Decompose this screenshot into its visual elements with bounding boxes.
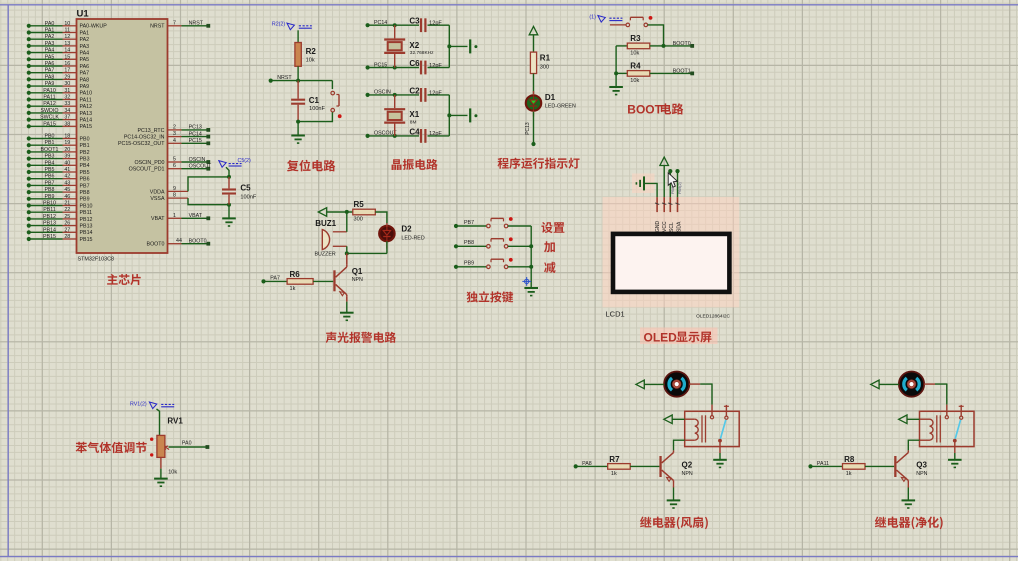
svg-text:PB2: PB2 — [80, 150, 90, 156]
svg-text:PA2: PA2 — [80, 37, 90, 43]
svg-text:21: 21 — [64, 201, 70, 207]
svg-text:PB9: PB9 — [44, 194, 54, 200]
svg-text:5: 5 — [173, 157, 176, 163]
svg-text:44: 44 — [176, 238, 182, 244]
svg-text:3: 3 — [173, 131, 176, 137]
svg-text:OSCIN_PD0: OSCIN_PD0 — [134, 160, 164, 166]
svg-text:PC15-OSC32_OUT: PC15-OSC32_OUT — [118, 141, 165, 147]
svg-text:26: 26 — [64, 221, 70, 227]
svg-text:PC15: PC15 — [189, 138, 202, 144]
svg-text:PA1: PA1 — [45, 28, 55, 34]
svg-text:X2: X2 — [409, 41, 419, 50]
svg-text:BOOT0: BOOT0 — [189, 239, 207, 245]
svg-text:PC14: PC14 — [374, 20, 387, 26]
svg-text:PA0: PA0 — [182, 440, 192, 446]
svg-text:PA4: PA4 — [45, 48, 55, 54]
svg-text:PB0: PB0 — [44, 134, 54, 140]
svg-text:C5(2): C5(2) — [238, 158, 251, 164]
svg-text:VDDA: VDDA — [150, 189, 165, 195]
svg-text:PC14: PC14 — [189, 131, 202, 137]
svg-text:PA1: PA1 — [80, 30, 90, 36]
svg-text:PB3: PB3 — [44, 154, 54, 160]
svg-text:NRST: NRST — [150, 24, 165, 30]
svg-text:PA3: PA3 — [45, 41, 55, 47]
svg-text:300: 300 — [540, 64, 549, 70]
svg-text:PC13: PC13 — [525, 122, 531, 135]
svg-text:31: 31 — [64, 88, 70, 94]
svg-text:PB0: PB0 — [80, 136, 90, 142]
svg-text:12pF: 12pF — [429, 21, 442, 27]
svg-text:PA11: PA11 — [43, 95, 55, 101]
svg-text:Q2: Q2 — [682, 460, 693, 469]
svg-text:14: 14 — [64, 48, 70, 54]
svg-text:10k: 10k — [168, 470, 177, 476]
svg-text:34: 34 — [64, 108, 70, 114]
svg-text:LED-RED: LED-RED — [401, 235, 424, 241]
svg-text:PB8: PB8 — [464, 240, 474, 246]
svg-text:R3: R3 — [630, 34, 641, 43]
svg-text:20: 20 — [64, 147, 70, 153]
svg-text:12: 12 — [64, 34, 70, 40]
svg-text:PB3: PB3 — [80, 157, 90, 163]
svg-text:PB7: PB7 — [44, 180, 54, 186]
svg-text:100nF: 100nF — [240, 195, 256, 201]
svg-text:12pF: 12pF — [429, 63, 442, 69]
svg-text:BOOT0: BOOT0 — [673, 41, 691, 47]
svg-text:19: 19 — [64, 140, 70, 146]
svg-text:PA3: PA3 — [80, 44, 90, 50]
svg-text:PA4: PA4 — [80, 51, 90, 57]
svg-text:33: 33 — [64, 101, 70, 107]
svg-text:PB10: PB10 — [80, 203, 93, 209]
svg-text:PB15: PB15 — [43, 234, 56, 240]
svg-text:4: 4 — [173, 138, 176, 144]
svg-text:SDA: SDA — [676, 221, 682, 232]
svg-text:40: 40 — [64, 160, 70, 166]
svg-text:PA11: PA11 — [80, 97, 92, 103]
svg-text:R4: R4 — [630, 62, 641, 71]
svg-text:PB13: PB13 — [80, 224, 93, 230]
svg-text:PB1: PB1 — [80, 143, 90, 149]
svg-text:VBAT: VBAT — [189, 213, 203, 219]
svg-text:PB5: PB5 — [80, 170, 90, 176]
svg-text:LCD1: LCD1 — [606, 310, 625, 319]
svg-text:PA6: PA6 — [80, 64, 90, 70]
svg-text:15: 15 — [64, 54, 70, 60]
svg-text:38: 38 — [64, 121, 70, 127]
svg-text:300: 300 — [354, 217, 363, 223]
svg-text:R7: R7 — [609, 455, 620, 464]
svg-text:6: 6 — [173, 163, 176, 169]
svg-text:PA8: PA8 — [582, 461, 592, 467]
svg-text:R2(2): R2(2) — [272, 22, 285, 28]
svg-text:SWDIO: SWDIO — [41, 108, 59, 114]
svg-text:PA7: PA7 — [45, 68, 55, 74]
svg-text:C2: C2 — [409, 86, 420, 95]
svg-text:OLED: OLED — [644, 330, 678, 344]
svg-text:PA8: PA8 — [45, 74, 55, 80]
svg-text:PA11: PA11 — [817, 461, 829, 467]
svg-text:PA15: PA15 — [80, 124, 93, 130]
svg-text:11: 11 — [65, 28, 71, 34]
svg-text:PC13: PC13 — [189, 125, 202, 131]
svg-text:BOOT1: BOOT1 — [41, 147, 59, 153]
svg-text:OLED12864I2C: OLED12864I2C — [696, 313, 730, 319]
svg-text:PB8: PB8 — [44, 187, 54, 193]
svg-text:OSCOUT_PD1: OSCOUT_PD1 — [129, 167, 165, 173]
svg-text:PB9: PB9 — [464, 261, 474, 267]
svg-text:R8: R8 — [844, 455, 855, 464]
svg-text:PA13: PA13 — [80, 111, 93, 117]
svg-text:PB15: PB15 — [80, 237, 93, 243]
svg-text:PB14: PB14 — [80, 230, 93, 236]
svg-text:37: 37 — [64, 115, 70, 121]
svg-text:PB5: PB5 — [44, 167, 54, 173]
svg-text:Q3: Q3 — [916, 460, 927, 469]
svg-text:45: 45 — [64, 187, 70, 193]
svg-text:PA12: PA12 — [43, 101, 56, 107]
svg-text:PA15: PA15 — [43, 121, 56, 127]
svg-text:PA5: PA5 — [45, 54, 55, 60]
svg-text:(1): (1) — [589, 15, 596, 21]
svg-text:PB7: PB7 — [80, 183, 90, 189]
svg-text:27: 27 — [64, 227, 70, 233]
svg-text:PB6: PB6 — [80, 177, 90, 183]
svg-text:C5: C5 — [240, 184, 251, 193]
svg-text:32.768KHz: 32.768KHz — [410, 50, 434, 56]
svg-text:C6: C6 — [409, 59, 420, 68]
svg-text:41: 41 — [64, 167, 70, 173]
svg-text:1k: 1k — [290, 286, 296, 292]
svg-text:16: 16 — [64, 61, 70, 67]
svg-text:1: 1 — [173, 213, 176, 219]
svg-text:R5: R5 — [354, 200, 365, 209]
svg-text:39: 39 — [64, 154, 70, 160]
svg-text:PA7: PA7 — [270, 275, 280, 281]
svg-text:PA5: PA5 — [80, 57, 90, 63]
svg-text:8: 8 — [173, 193, 176, 199]
svg-text:28: 28 — [64, 234, 70, 240]
svg-text:13: 13 — [64, 41, 70, 47]
svg-text:BOOT: BOOT — [627, 103, 662, 117]
svg-text:PC14-OSC32_IN: PC14-OSC32_IN — [124, 135, 165, 141]
svg-text:OSCOUT: OSCOUT — [189, 164, 212, 170]
svg-text:PB10: PB10 — [43, 201, 56, 207]
svg-text:7: 7 — [173, 20, 176, 26]
svg-text:R1: R1 — [540, 54, 551, 63]
svg-text:RV1(2): RV1(2) — [130, 402, 147, 408]
svg-text:43: 43 — [64, 180, 70, 186]
svg-text:X1: X1 — [409, 110, 419, 119]
svg-text:PB6: PB6 — [44, 174, 54, 180]
svg-text:R2: R2 — [306, 47, 317, 56]
svg-text:BOOT1: BOOT1 — [673, 68, 691, 74]
svg-text:PA0-WKUP: PA0-WKUP — [80, 24, 108, 30]
svg-text:GND: GND — [655, 221, 661, 233]
svg-text:PB12: PB12 — [80, 217, 93, 223]
svg-text:D1: D1 — [545, 93, 556, 102]
svg-text:U1: U1 — [77, 9, 90, 20]
svg-text:Q1: Q1 — [352, 267, 363, 276]
svg-text:PA7: PA7 — [80, 71, 90, 77]
svg-text:R6: R6 — [290, 270, 301, 279]
svg-text:SWCLK: SWCLK — [40, 115, 59, 121]
svg-text:PB9(2): PB9(2) — [678, 181, 682, 194]
svg-text:PA9: PA9 — [80, 84, 90, 90]
svg-text:PA9: PA9 — [45, 81, 55, 87]
svg-text:9: 9 — [173, 186, 176, 192]
svg-text:NPN: NPN — [352, 277, 363, 283]
svg-text:PB4: PB4 — [44, 160, 54, 166]
svg-text:VBAT: VBAT — [151, 216, 165, 222]
svg-text:NPN: NPN — [682, 471, 693, 477]
svg-text:NPN: NPN — [916, 471, 927, 477]
svg-text:100nF: 100nF — [309, 106, 325, 112]
svg-text:22: 22 — [64, 207, 70, 213]
svg-text:PC15: PC15 — [374, 62, 387, 68]
svg-text:C4: C4 — [409, 127, 420, 136]
svg-text:PA6: PA6 — [45, 61, 55, 67]
svg-text:42: 42 — [64, 174, 70, 180]
svg-text:PA0: PA0 — [45, 21, 55, 27]
svg-text:18: 18 — [64, 134, 70, 140]
svg-text:PB4: PB4 — [80, 163, 90, 169]
svg-text:BOOT0: BOOT0 — [147, 242, 165, 248]
svg-text:30: 30 — [64, 81, 70, 87]
svg-text:OSCIN: OSCIN — [189, 157, 206, 163]
svg-text:1k: 1k — [846, 471, 852, 477]
svg-text:12pF: 12pF — [429, 131, 442, 137]
svg-text:1k: 1k — [611, 471, 617, 477]
svg-text:LED-GREEN: LED-GREEN — [545, 103, 576, 109]
svg-text:BUZZER: BUZZER — [315, 252, 336, 258]
svg-text:2: 2 — [173, 124, 176, 130]
svg-text:17: 17 — [64, 68, 70, 74]
svg-text:OSCIN: OSCIN — [374, 90, 391, 96]
svg-text:STM32F103C8: STM32F103C8 — [78, 257, 115, 263]
svg-text:PB8: PB8 — [80, 190, 90, 196]
svg-text:PA14: PA14 — [80, 118, 93, 124]
svg-text:PB7: PB7 — [464, 220, 474, 226]
svg-text:PB11: PB11 — [80, 210, 93, 216]
svg-text:32: 32 — [64, 95, 70, 101]
svg-text:D2: D2 — [401, 224, 412, 233]
svg-text:PA10: PA10 — [43, 88, 56, 94]
svg-text:12pF: 12pF — [429, 90, 442, 96]
svg-text:25: 25 — [64, 214, 70, 220]
svg-text:PA10: PA10 — [80, 91, 93, 97]
svg-text:PA8: PA8 — [80, 77, 90, 83]
svg-text:SCL: SCL — [669, 222, 675, 232]
svg-text:46: 46 — [64, 194, 70, 200]
svg-text:PB14: PB14 — [43, 227, 56, 233]
svg-text:C3: C3 — [409, 17, 420, 26]
svg-text:10k: 10k — [630, 78, 639, 84]
svg-text:RV1: RV1 — [167, 417, 183, 426]
svg-text:BUZ1: BUZ1 — [315, 219, 336, 228]
svg-text:29: 29 — [64, 74, 70, 80]
svg-text:PB13: PB13 — [43, 221, 56, 227]
svg-text:VSSA: VSSA — [150, 196, 165, 202]
svg-text:PC13_RTC: PC13_RTC — [138, 128, 165, 134]
svg-text:8M: 8M — [410, 119, 417, 125]
svg-text:10: 10 — [64, 21, 70, 27]
svg-text:PB12: PB12 — [43, 214, 56, 220]
svg-text:NRST: NRST — [277, 75, 292, 81]
svg-text:C1: C1 — [309, 96, 320, 105]
svg-text:PB11: PB11 — [43, 207, 56, 213]
svg-text:10k: 10k — [306, 58, 315, 64]
svg-text:10k: 10k — [630, 50, 639, 56]
svg-text:PA12: PA12 — [80, 104, 93, 110]
svg-text:NRST: NRST — [189, 21, 204, 27]
svg-text:PB9: PB9 — [80, 197, 90, 203]
svg-text:PB1: PB1 — [44, 140, 54, 146]
svg-text:VCC: VCC — [662, 221, 668, 232]
svg-text:PA2: PA2 — [45, 34, 55, 40]
